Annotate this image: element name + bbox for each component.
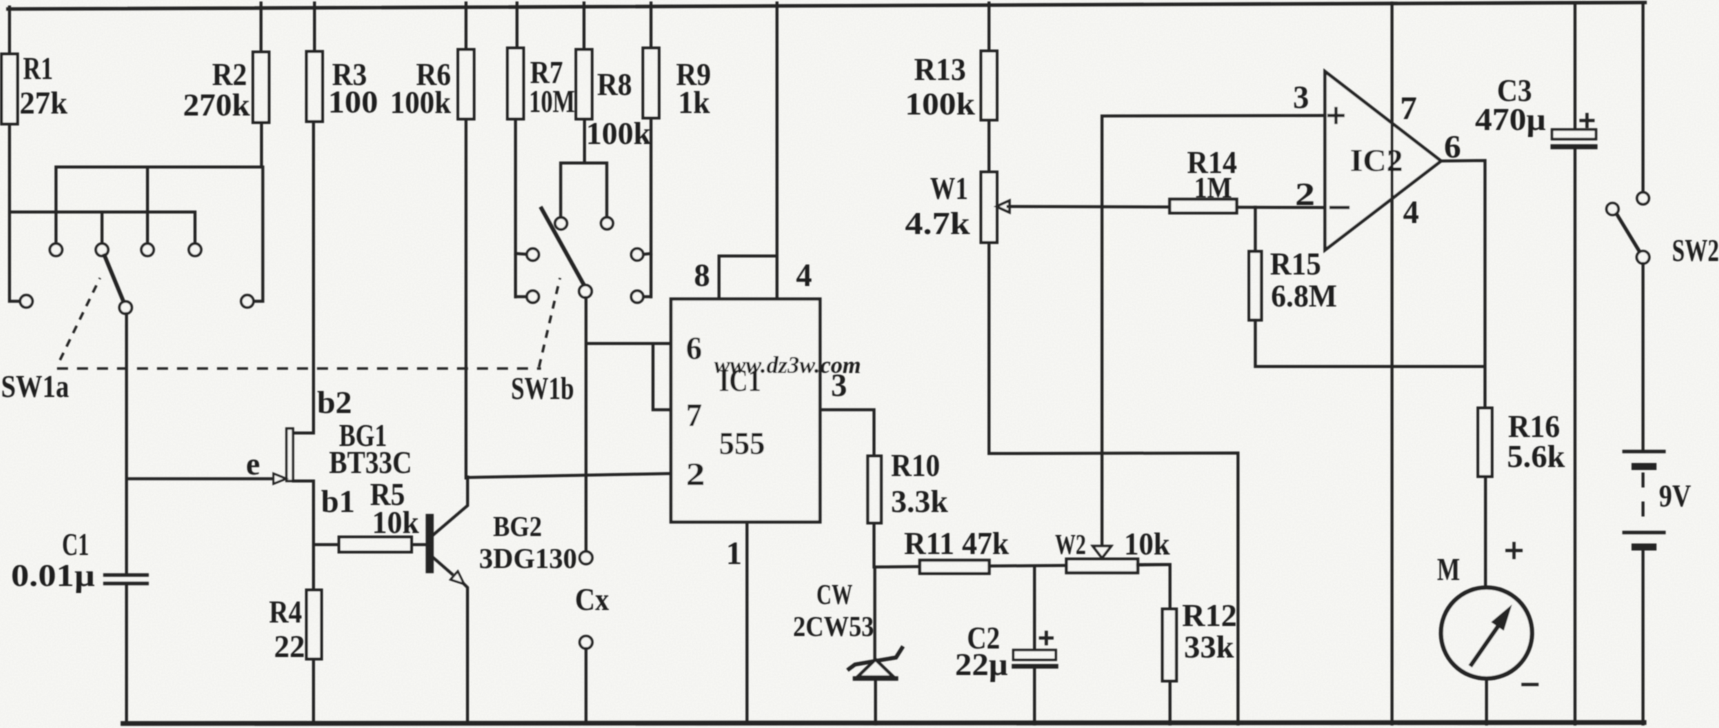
node SW1a contact 1 <box>50 244 62 256</box>
wire SW1b pole down to Cx <box>585 298 588 552</box>
diode CW zener triangle <box>858 660 894 678</box>
wire BG2 emitter <box>433 557 453 574</box>
resistor R4 <box>307 590 322 659</box>
wire R8 bottom leg <box>583 119 586 163</box>
node SW1a pole <box>119 301 131 313</box>
wire R7 stub to SW1b lower-left contact <box>516 295 527 298</box>
battery positive plate 2 <box>1624 531 1664 534</box>
wire Cx lower terminal to ground <box>585 649 588 724</box>
wire W2 wiper vertical <box>1101 116 1104 546</box>
wire BG2 emitter to ground <box>464 584 468 725</box>
wire dashed gang link horizontal <box>57 367 541 370</box>
wire battery to ground bus <box>1642 551 1645 725</box>
wire dashed gang link SW1b diagonal <box>539 278 560 367</box>
wire R1 bottom leg to SW1a <box>10 124 21 301</box>
meter M plus sign <box>1507 549 1521 552</box>
node SW1a lower-right contact <box>241 295 253 307</box>
resistor R2 <box>253 52 269 123</box>
wire bottom ground bus <box>123 723 1644 724</box>
resistor R12 <box>1162 609 1176 681</box>
wire R2 top leg <box>260 3 263 52</box>
wire R1 top leg <box>8 7 11 54</box>
wire C2 top lead <box>1033 566 1036 650</box>
wire SW2 top leg from bus <box>1642 3 1645 192</box>
switch SW1a arm <box>105 256 124 302</box>
capacitor C3 top plate <box>1552 130 1596 140</box>
resistor R11 <box>920 560 989 573</box>
meter M minus sign <box>1523 683 1537 686</box>
wire IC1 pin6 line to SW1b pole <box>586 342 671 345</box>
op-amp timer IC1 555 box <box>671 299 820 522</box>
wire IC2 pin3 input line <box>1102 114 1325 118</box>
node Cx lower terminal <box>580 636 593 649</box>
resistor R1 <box>2 54 18 124</box>
wire IC2 pin6 output <box>1441 161 1485 409</box>
wire IC1 pin6-pin7 bracket <box>653 344 671 410</box>
wire R13 to W1 <box>988 120 991 172</box>
wire BG1 b1 lead <box>294 481 314 590</box>
wire W1 wiper line to R14 and IC2 pin2 <box>1008 207 1325 208</box>
switch SW1b arm <box>542 209 585 286</box>
wire R8 top leg <box>583 3 586 50</box>
wire CW zener to ground <box>874 679 877 724</box>
wire R15 bottom leg and feedback line to output <box>1255 320 1485 366</box>
wire R9 stub to SW1b upper-right contact <box>643 252 651 256</box>
wire R13 top leg <box>988 3 991 51</box>
capacitor C2 bottom plate <box>1014 664 1056 669</box>
wire R16 to meter <box>1484 477 1487 588</box>
wire R9 stub to SW1b lower-right contact <box>643 295 651 298</box>
node SW2 top contact <box>1637 192 1649 204</box>
wire R4 bottom leg <box>312 659 315 724</box>
wire IC1 pin1 to ground <box>746 522 749 724</box>
node SW1b pole <box>579 285 592 298</box>
wire emitter line to BG1 <box>127 477 275 480</box>
wire R11 node line <box>874 565 1170 568</box>
wire R9 top leg <box>650 3 653 48</box>
wire battery dashed middle cells <box>1642 474 1645 529</box>
wire W2 wiper arrowhead <box>1093 546 1111 558</box>
node SW1b right contact lower <box>631 291 643 303</box>
wire W1 wiper arrowhead <box>997 201 1010 213</box>
diode CW zener cathode bar <box>849 648 902 669</box>
resistor R5 <box>339 537 412 552</box>
battery positive plate 1 <box>1624 450 1664 453</box>
wire R5 right lead to BG2 base <box>412 543 427 546</box>
node Cx upper terminal <box>580 552 593 565</box>
wire W1 bottom leg to ground <box>989 243 1238 725</box>
resistor R15 <box>1249 251 1261 320</box>
wire R3 top leg <box>313 3 316 52</box>
wire BG2 emitter arrowhead <box>451 571 464 584</box>
resistor R9 <box>643 48 659 118</box>
capacitor C3 bottom plate <box>1553 144 1595 149</box>
capacitor C2 top plate <box>1013 650 1056 660</box>
wire node collector to IC1 pin 2 <box>466 474 671 478</box>
node SW2 pole <box>1637 251 1650 264</box>
wire R6 top leg <box>465 3 468 50</box>
capacitor C3 plus sign <box>1581 119 1593 122</box>
node SW1b top contact left <box>555 217 567 229</box>
wire SW1a upper bracket from R2 <box>56 167 263 301</box>
resistor R8 <box>576 50 592 120</box>
op-amp IC2 minus input sign <box>1331 206 1348 209</box>
op-amp IC2 triangle <box>1325 72 1441 251</box>
wire SW1a lower bracket drop to contact 2 <box>101 212 104 243</box>
wire W2 to R12 <box>1138 565 1170 610</box>
meter M circle <box>1441 588 1532 679</box>
resistor R14 <box>1170 199 1237 213</box>
node SW1b right contact upper <box>631 249 643 261</box>
wire C3 to ground <box>1574 150 1577 725</box>
resistor R10 <box>868 456 881 523</box>
resistor R3 <box>307 52 323 122</box>
battery negative plate 1 <box>1635 463 1653 470</box>
wire R7 bottom leg <box>514 119 517 297</box>
wire SW2 pole to battery <box>1642 264 1645 450</box>
node SW2 left contact <box>1607 203 1619 215</box>
node SW1a contact 3 <box>141 244 153 256</box>
wire SW1a pole down to C1 and emitter line <box>125 314 128 573</box>
wire R2 bottom leg <box>260 123 263 168</box>
wire IC1 pin4 supply leg from top bus <box>776 3 779 299</box>
wire BG1 e arrowhead <box>274 474 287 484</box>
resistor R16 <box>1478 408 1492 477</box>
wire R6 bottom leg down to BG2 collector node <box>465 119 468 478</box>
wire IC1 pin8 bump <box>719 256 777 299</box>
wire R10 bottom leg <box>873 523 876 567</box>
diode CW zener base bar <box>855 676 896 681</box>
node SW1a lower-left contact <box>20 295 32 307</box>
wire R12 to ground <box>1169 681 1172 724</box>
node SW1b left contact upper <box>527 249 539 261</box>
wire R3 bottom leg to BG1 b2 <box>294 122 314 434</box>
node SW1b left contact lower <box>527 291 539 303</box>
wire meter to ground <box>1485 679 1488 725</box>
meter M needle arrowhead <box>1492 606 1511 630</box>
wire R5 left lead <box>314 543 340 546</box>
wire dashed gang link SW1a diagonal <box>60 278 100 360</box>
potentiometer W2 body <box>1066 559 1137 573</box>
switch SW2 arm <box>1617 215 1640 252</box>
wire IC1 pin3 output lead <box>820 410 874 456</box>
capacitor C1 bottom plate <box>105 582 147 586</box>
wire CW zener anode lead <box>873 567 876 661</box>
node SW1b top contact right <box>601 217 613 229</box>
wire top supply bus <box>8 3 1645 10</box>
transistor Q BG1 bar <box>287 429 294 482</box>
wire R9 bottom leg <box>650 118 653 297</box>
battery negative plate 2 <box>1635 544 1653 551</box>
resistor R6 <box>458 50 474 120</box>
wire C1 to ground bus <box>125 585 128 724</box>
op-amp IC2 plus input sign <box>1329 114 1343 117</box>
potentiometer W1 body <box>981 172 997 243</box>
wire C3 top lead from bus <box>1574 3 1577 130</box>
resistor R7 <box>508 48 524 119</box>
transistor Q2 BG2 base bar <box>426 514 433 572</box>
wire R8 bracket to SW1b top contacts <box>561 163 607 217</box>
wire SW1a upper bracket drop to contact 3 <box>146 167 149 243</box>
wire C2 to ground <box>1033 669 1036 725</box>
wire BG2 collector <box>433 477 468 536</box>
wire SW1a lower bracket from R1 <box>10 212 196 243</box>
wire R7 top leg <box>516 3 519 48</box>
capacitor C1 top plate <box>105 573 147 577</box>
wire R7 stub to SW1b upper-left contact <box>516 252 527 256</box>
wire IC2 pin7 pin4 vertical <box>1391 3 1394 724</box>
node SW1a contact 2 <box>96 244 108 256</box>
capacitor C2 plus sign <box>1041 636 1053 639</box>
wire R15 top leg <box>1254 207 1257 251</box>
meter M needle <box>1472 627 1498 665</box>
node SW1a contact 4 <box>189 244 201 256</box>
resistor R13 <box>981 51 997 120</box>
